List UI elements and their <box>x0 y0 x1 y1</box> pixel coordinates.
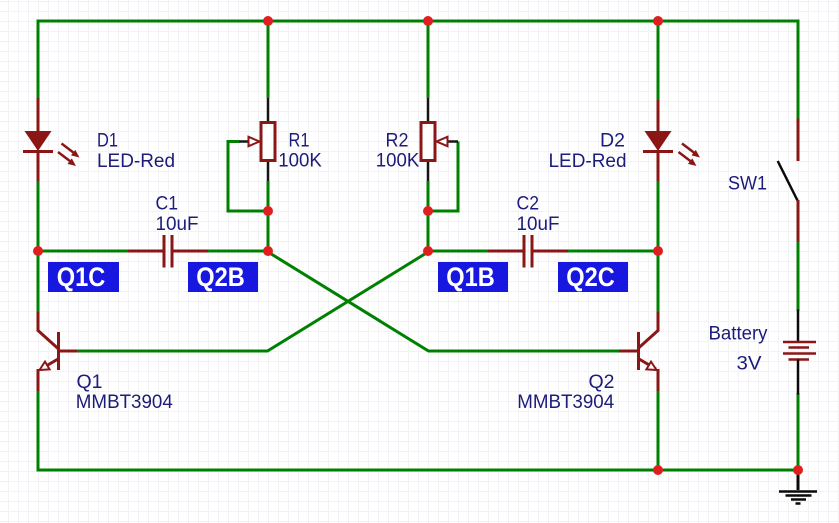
wire D2 column lower <box>657 391 660 472</box>
node bottom Q2 <box>653 465 663 475</box>
net label Q1C <box>48 262 119 292</box>
resistor R1 (preset pot) <box>239 98 275 181</box>
wire C1 to node Q2B <box>208 250 270 253</box>
svg-text:MMBT3904: MMBT3904 <box>517 392 614 413</box>
wire C2 to node Q2C <box>568 250 660 253</box>
node Q1C <box>33 246 43 256</box>
svg-text:MMBT3904: MMBT3904 <box>76 392 173 413</box>
wire R2 wiper loop <box>428 142 458 212</box>
node Q2B <box>263 246 273 256</box>
svg-text:R1: R1 <box>289 130 310 151</box>
node Q2C <box>653 246 663 256</box>
capacitor C2 <box>488 235 568 268</box>
wire Q2 base cross-coupling to node under R1 <box>268 252 619 351</box>
wire top rail <box>37 20 800 23</box>
svg-text:Q2C: Q2C <box>566 262 615 292</box>
wire R1 wiper loop <box>228 142 268 212</box>
net label Q2C <box>558 262 628 292</box>
capacitor C1 <box>128 235 208 268</box>
wire D2 column upper <box>657 20 660 101</box>
node bottom battery <box>793 465 803 475</box>
wire D2 column mid <box>657 180 660 312</box>
wire Q1 base cross-coupling to node under R2 <box>77 252 428 351</box>
wire node Q1C to C1 <box>38 250 128 253</box>
wire right rail battery-to-bottom <box>797 393 800 472</box>
svg-text:LED-Red: LED-Red <box>97 151 175 172</box>
wire left rail mid <box>37 181 40 312</box>
node R2 wiper <box>423 206 433 216</box>
node top R1 <box>263 16 273 26</box>
switch SW1 <box>778 119 798 242</box>
svg-text:SW1: SW1 <box>728 173 767 194</box>
wire R1 column lower <box>267 181 270 252</box>
svg-text:Battery: Battery <box>709 324 768 345</box>
wire R2 column upper <box>427 20 430 99</box>
svg-text:D2: D2 <box>600 130 625 151</box>
wire left rail upper <box>37 20 40 99</box>
svg-text:Q1C: Q1C <box>57 262 106 292</box>
net label Q1B <box>438 262 508 292</box>
LED D2 <box>643 100 700 181</box>
node Q1B <box>423 246 433 256</box>
transistor Q1 <box>38 312 77 391</box>
svg-text:Q1: Q1 <box>77 372 103 393</box>
ground <box>779 470 817 504</box>
resistor R2 (preset pot) <box>421 98 458 181</box>
wire bottom rail <box>37 469 800 472</box>
svg-text:Q2: Q2 <box>589 372 615 393</box>
transistor Q2 <box>619 312 658 391</box>
wire R1 column upper <box>267 20 270 99</box>
wire left rail lower <box>37 391 40 472</box>
node R1 wiper <box>263 206 273 216</box>
net label Q2B <box>188 262 258 292</box>
svg-text:10uF: 10uF <box>156 214 199 235</box>
svg-text:3V: 3V <box>737 353 762 374</box>
LED D1 <box>23 98 80 181</box>
node top R2 <box>423 16 433 26</box>
wire right rail switch-to-battery <box>797 240 800 311</box>
svg-text:D1: D1 <box>97 130 118 151</box>
svg-text:100K: 100K <box>376 150 420 171</box>
svg-text:LED-Red: LED-Red <box>549 151 627 172</box>
svg-text:C1: C1 <box>156 194 179 215</box>
svg-text:C2: C2 <box>517 194 540 215</box>
svg-text:10uF: 10uF <box>517 214 560 235</box>
battery BT1 <box>783 310 816 395</box>
svg-text:R2: R2 <box>386 130 409 151</box>
wire node Q1B to C2 <box>428 250 488 253</box>
svg-text:100K: 100K <box>278 150 322 171</box>
svg-text:Q2B: Q2B <box>196 262 245 292</box>
svg-text:Q1B: Q1B <box>446 262 495 292</box>
wire right rail upper <box>797 20 800 121</box>
node top D2 <box>653 16 663 26</box>
wire R2 column lower <box>427 181 430 252</box>
